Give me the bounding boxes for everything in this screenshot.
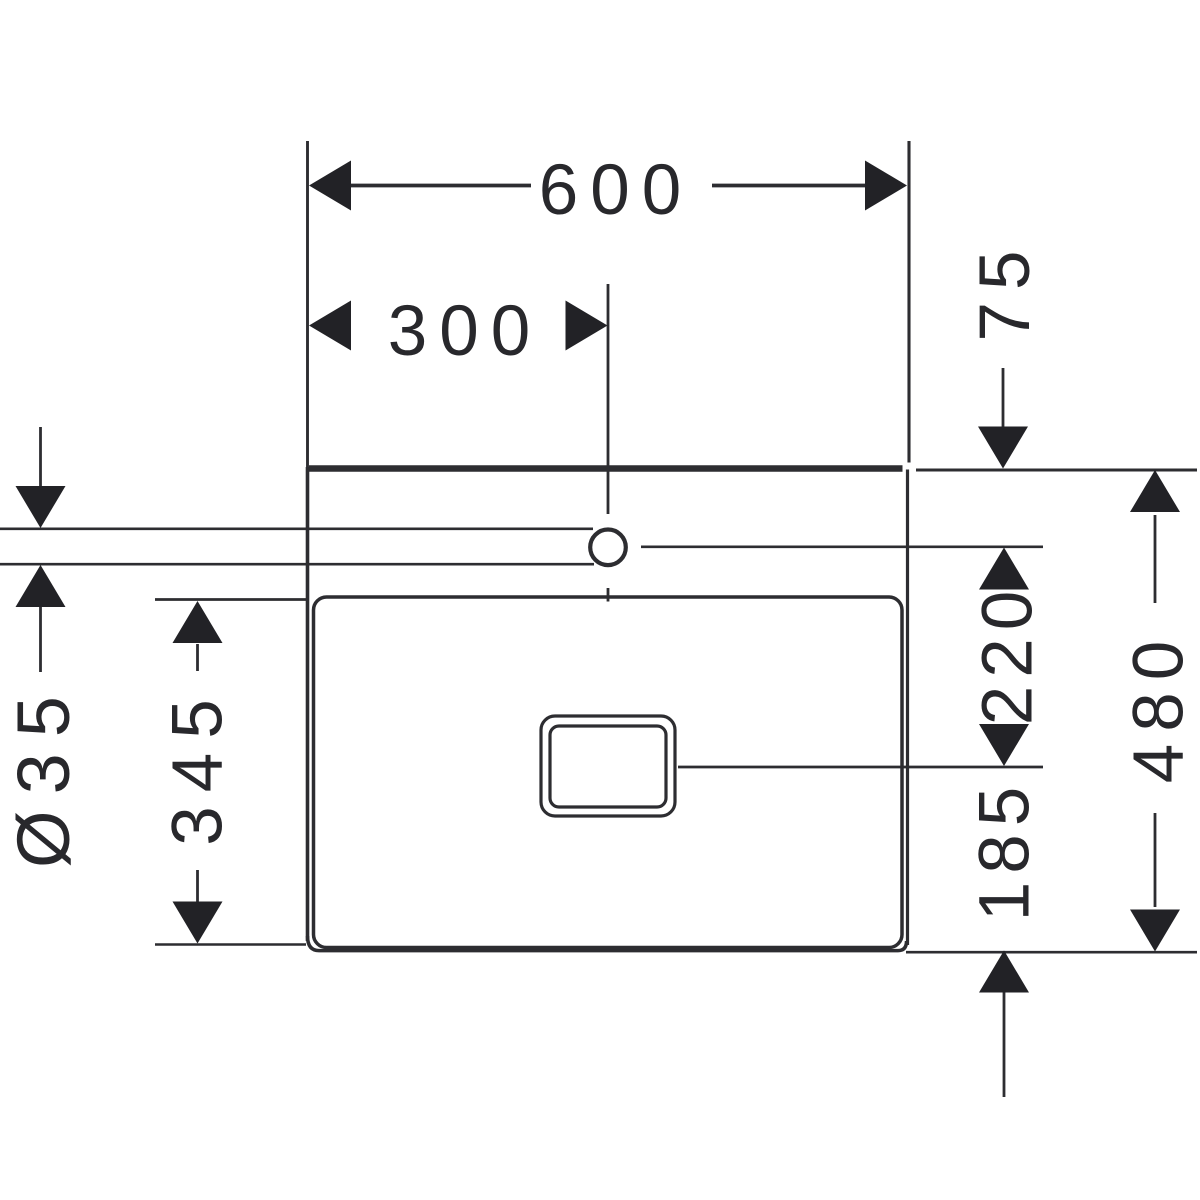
arrow: 600 dim right	[865, 161, 907, 211]
wire: top surface line A extension to right	[916, 469, 1197, 472]
wire: basin top edge (thick)	[309, 465, 903, 472]
wire: basin left outer edge	[306, 467, 310, 941]
svg-text:345: 345	[159, 685, 238, 845]
wire: leader of 480 top arrow	[1154, 515, 1157, 603]
wire: centre extension line of 300 dim	[607, 284, 610, 514]
wire: leader of 185 arrow	[1003, 990, 1006, 1097]
wire: right extension line of 600 dim (x=909)	[907, 141, 910, 463]
arrow: 300 dim right	[566, 301, 608, 351]
svg-text:480: 480	[1120, 629, 1199, 783]
arrow: 220 top (points up onto line B)	[979, 548, 1029, 590]
wire: basin outer bottom edge	[308, 936, 907, 951]
drain outer rounded rectangle	[541, 716, 675, 816]
wire: leader of 75 arrow	[1002, 368, 1005, 428]
arrow: 220 bottom (points down onto line C)	[979, 724, 1029, 766]
wire: hole centre line B to right	[641, 545, 1043, 548]
faucet hole circle Ø35	[590, 530, 626, 566]
wire: leader of Ø35 upper arrow	[39, 427, 42, 488]
arrow: 300 dim left	[309, 301, 351, 351]
arrow: 345 bottom (points down)	[173, 902, 223, 944]
wire: leader of 480 bottom arrow	[1154, 813, 1157, 907]
wire: 600 dimension line left segment	[350, 184, 531, 188]
arrow: 185 (points up onto line D)	[979, 951, 1029, 993]
wire: hole top tangent line (Ø35 upper)	[0, 527, 593, 530]
arrow: 345 top (points up)	[173, 601, 223, 643]
arrow: 480 bottom (points down onto line D)	[1130, 910, 1180, 952]
wire: small centre tick across inner rim	[607, 588, 610, 602]
wire: leader of 345 top arrow	[196, 644, 199, 671]
wire: hole bottom tangent line (Ø35 lower)	[0, 563, 594, 566]
wire: left extension line / basin left edge (x=307.5)	[306, 141, 309, 469]
arrow: Ø35 lower (points up)	[16, 565, 66, 607]
wire: 345 dim top extension line	[155, 598, 306, 601]
svg-text:300: 300	[388, 292, 542, 371]
wire: leader of Ø35 lower arrow	[39, 606, 42, 672]
wire: drain centre line C to right	[678, 766, 1043, 769]
svg-text:600: 600	[539, 151, 693, 230]
drain inner rounded rectangle	[550, 726, 666, 807]
arrow: Ø35 upper (points down)	[16, 486, 66, 528]
arrow: 600 dim left	[309, 161, 351, 211]
wire: 345 dim bottom extension line	[155, 943, 306, 946]
wire: bottom line D extension to right	[906, 951, 1197, 954]
svg-text:220: 220	[969, 583, 1048, 725]
svg-text:Ø35: Ø35	[2, 680, 85, 868]
svg-text:185: 185	[966, 779, 1045, 921]
arrow: 75 (points down onto line A)	[978, 427, 1028, 469]
basin inner bowl rounded rectangle	[314, 597, 903, 948]
wire: basin right outer edge	[906, 470, 909, 946]
svg-text:75: 75	[966, 239, 1045, 342]
arrow: 480 top (points up onto line A)	[1130, 470, 1180, 512]
wire: 600 dimension line right segment	[712, 184, 865, 188]
wire: leader of 345 bottom arrow	[196, 870, 199, 902]
